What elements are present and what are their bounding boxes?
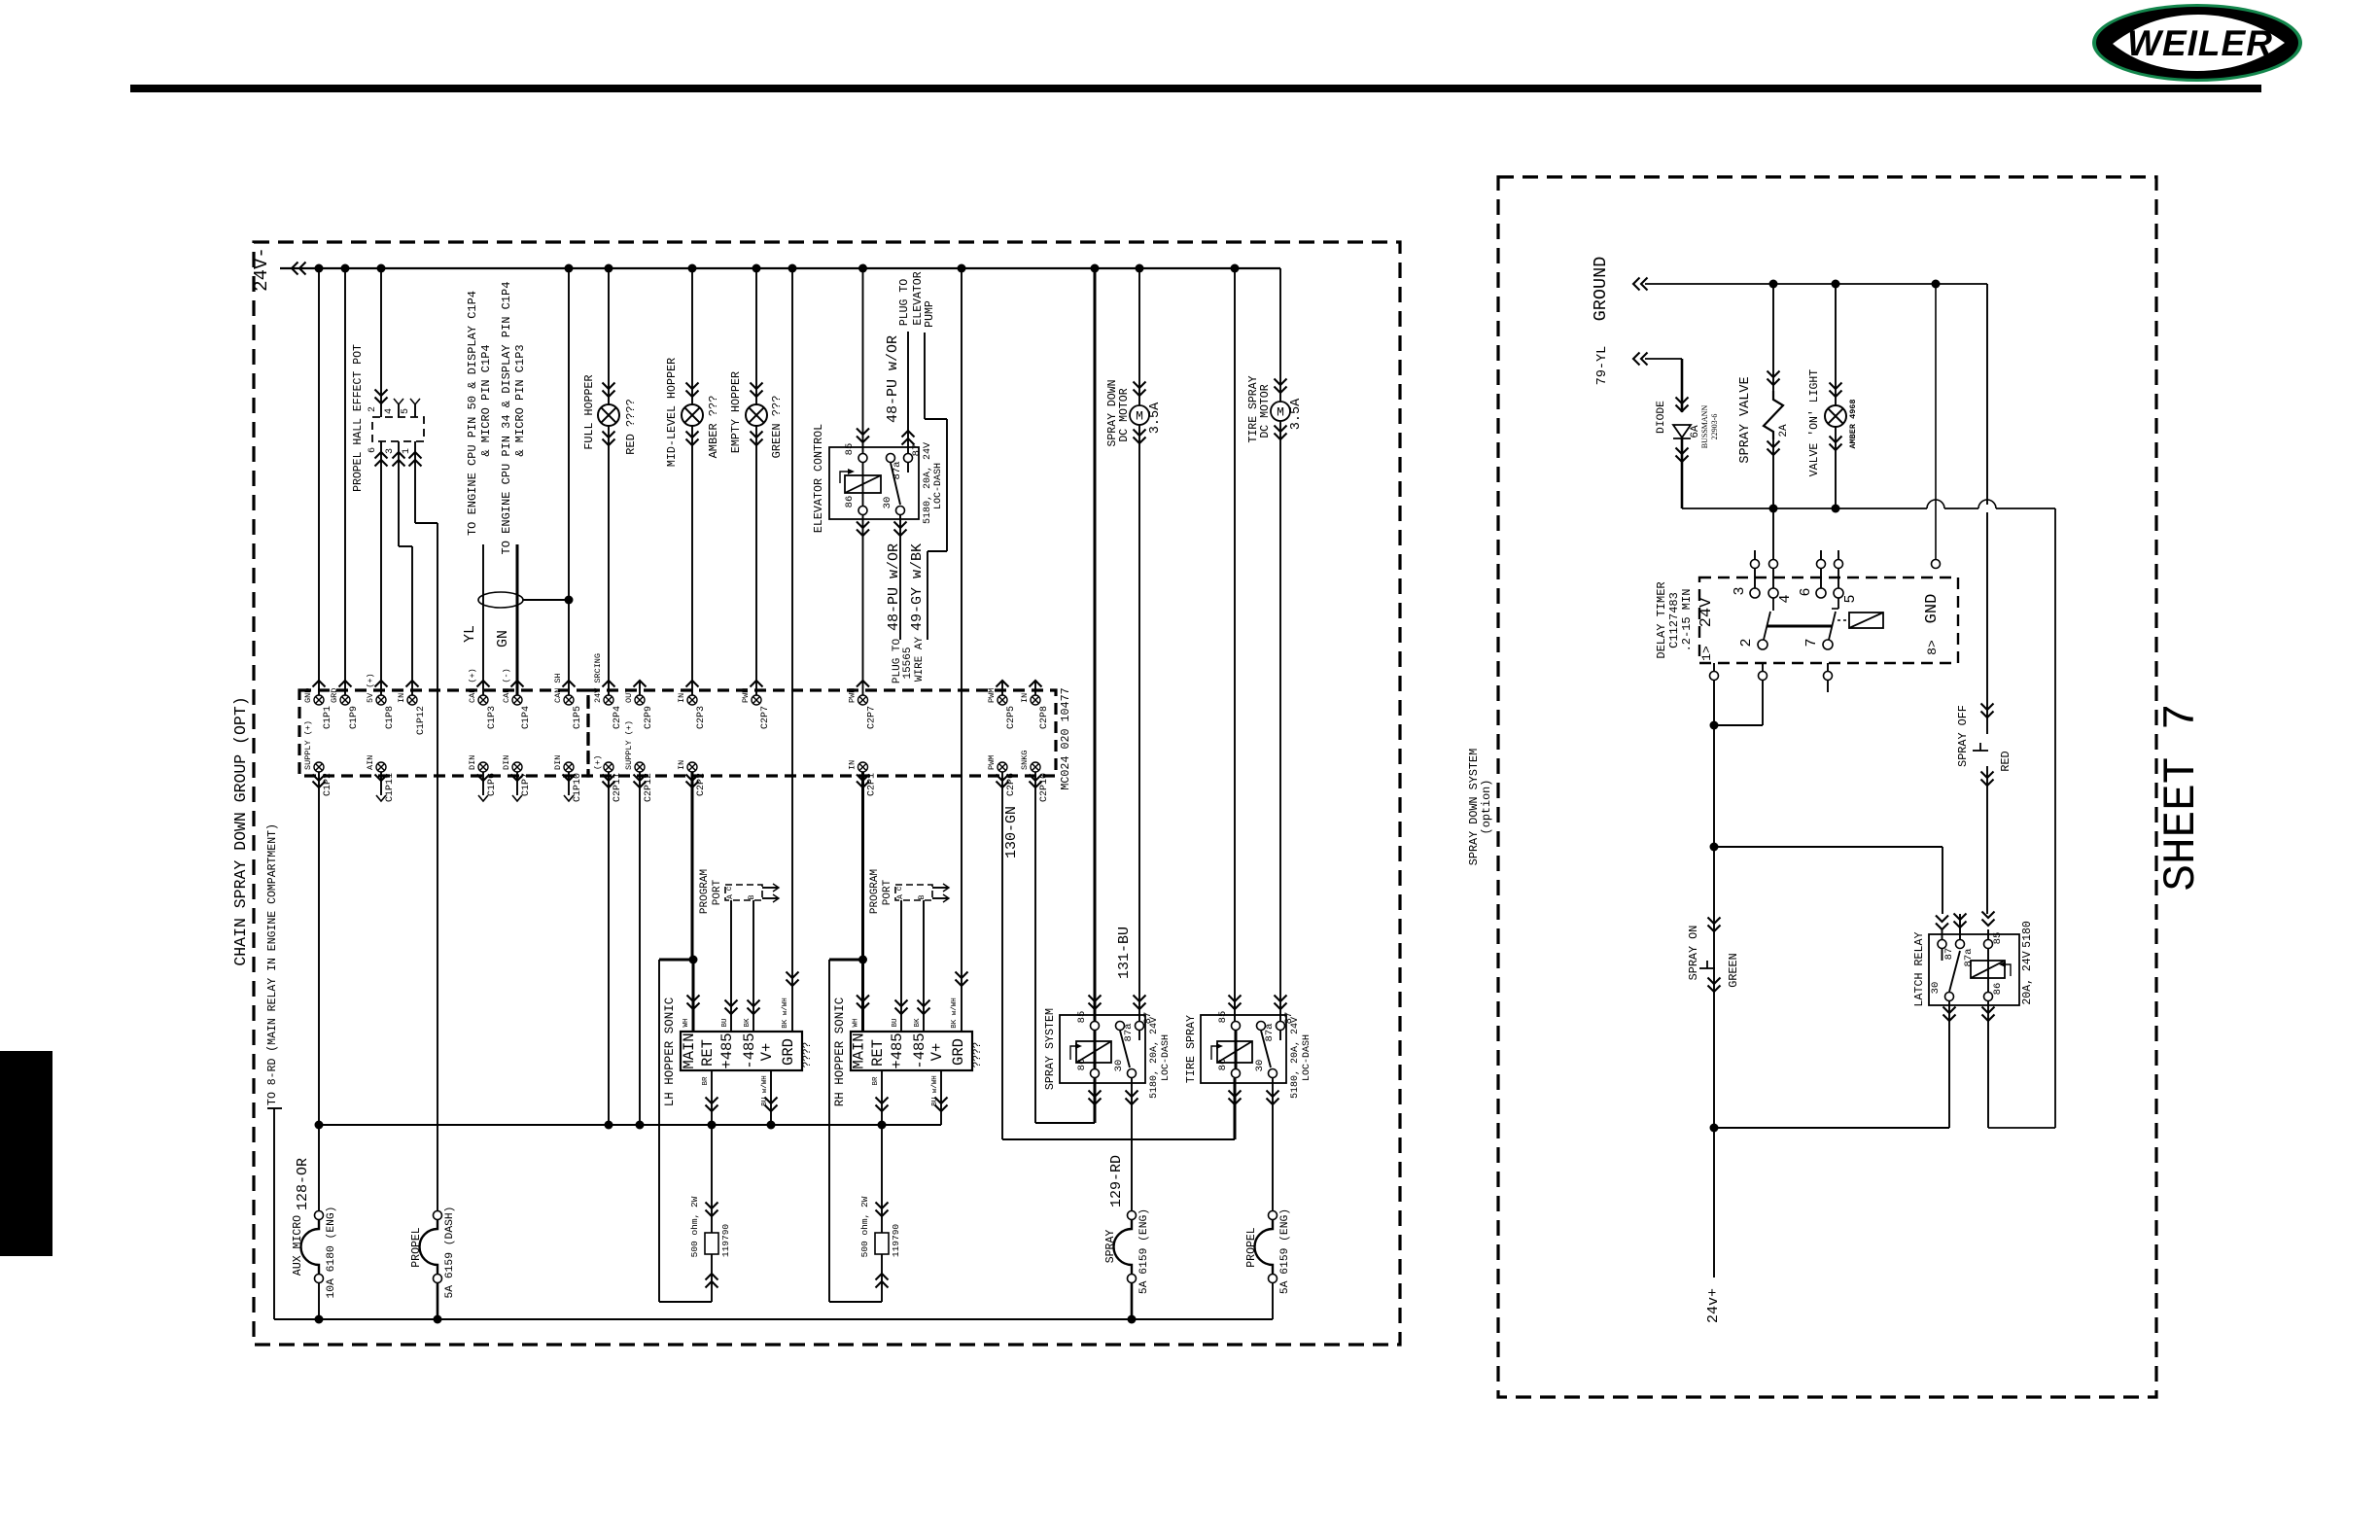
- wire C2P10 link to SPRAY SYSTEM 86: [1035, 1078, 1102, 1123]
- connector pin C2P10 (SNKG) bottom row: [1020, 751, 1050, 802]
- svg-text:AIN: AIN: [366, 755, 375, 770]
- svg-text:GROUND: GROUND: [1591, 257, 1611, 322]
- svg-text:87a: 87a: [1264, 1024, 1276, 1042]
- label GN: [495, 630, 511, 647]
- LH program port arrows: [762, 884, 779, 902]
- svg-text:C2P2: C2P2: [696, 773, 707, 796]
- 24V- bus wire: [280, 262, 1280, 275]
- svg-text:24V: 24V: [1697, 597, 1716, 627]
- label 22903-6: [1710, 414, 1719, 440]
- label YL: [462, 625, 478, 643]
- connector pin C2P11 ((+)) bottom row: [593, 755, 623, 802]
- label AMBER ???: [707, 396, 720, 459]
- svg-text:C1P1: C1P1: [323, 706, 333, 729]
- svg-text:C1P9: C1P9: [349, 706, 360, 729]
- svg-text:2A: 2A: [1778, 424, 1790, 437]
- wire bus to C1P9: [344, 268, 346, 695]
- label 119790 (LH): [720, 1224, 731, 1258]
- label 1> 24V: [1697, 597, 1716, 661]
- wire C2P10 SNKG down to spray relay 86 link: [1034, 772, 1036, 1123]
- connector pin C1P4 (CAN (-)) top row: [502, 668, 532, 729]
- label 15565: [902, 647, 914, 679]
- svg-text:ELEVATOR CONTROL: ELEVATOR CONTROL: [812, 424, 825, 533]
- label C1127483: [1667, 592, 1681, 648]
- motor SPRAY DOWN DC MOTOR: [1130, 405, 1149, 425]
- wire bus to C1P1: [318, 268, 320, 695]
- junction on 24V- bus x=1172: [1136, 264, 1144, 273]
- svg-text:FULL HOPPER: FULL HOPPER: [582, 374, 596, 449]
- wire ground to delay timer pin 8: [1932, 284, 1941, 569]
- label & MICRO PIN C1P4: [479, 344, 493, 456]
- svg-text:CAN SH: CAN SH: [553, 673, 563, 703]
- svg-text:5180: 5180: [2021, 921, 2034, 948]
- svg-text:5180, 20A, 24V: 5180, 20A, 24V: [1290, 1017, 1301, 1099]
- label 131-BU: [1116, 927, 1133, 979]
- SPRAY SYSTEM pin 87: [1136, 1012, 1155, 1031]
- svg-text:GRD: GRD: [950, 1038, 967, 1066]
- svg-text:6: 6: [367, 447, 378, 453]
- svg-text:LOC-DASH: LOC-DASH: [1302, 1034, 1312, 1081]
- DELAY TIMER dashed box: [1699, 577, 1958, 663]
- svg-text:BUSSMANN: BUSSMANN: [1700, 405, 1709, 449]
- svg-text:C2P12: C2P12: [644, 773, 654, 802]
- svg-text:LH HOPPER SONIC: LH HOPPER SONIC: [663, 997, 677, 1107]
- connector pin C1P3 (CAN (+)) top row: [468, 668, 498, 729]
- wire C2P12 to supply net: [639, 772, 641, 1125]
- elevator relay pin 85: [844, 443, 867, 463]
- junction on 24V- bus x=989: [958, 264, 966, 273]
- svg-text:PROGRAM: PROGRAM: [869, 869, 881, 914]
- svg-text:PWM: PWM: [848, 688, 857, 703]
- svg-text:87: 87: [1943, 948, 1955, 961]
- svg-text:79-YL: 79-YL: [1595, 346, 1610, 386]
- svg-text:RET: RET: [869, 1039, 887, 1067]
- wire spray valve branch: [1767, 284, 1780, 513]
- svg-text:PWM: PWM: [741, 688, 751, 703]
- svg-text:3: 3: [385, 448, 396, 454]
- wire C2P6 to net B (130-GN area): [1001, 772, 1003, 1139]
- connector pin C1P7 (DIN) bottom row: [502, 755, 532, 801]
- lamp FULL HOPPER: [598, 383, 619, 446]
- svg-text:MC024 020 10477: MC024 020 10477: [1059, 687, 1072, 789]
- svg-text:24V-: 24V-: [251, 247, 272, 292]
- label (option): [1480, 780, 1493, 835]
- GROUND net wire: [1633, 278, 1987, 291]
- switch SPRAY ON pushbutton: [1699, 918, 1721, 993]
- svg-text:4: 4: [384, 408, 395, 414]
- label PORT (RH): [882, 879, 893, 905]
- svg-text:119790: 119790: [891, 1224, 901, 1258]
- label EMPTY HOPPER: [729, 371, 743, 453]
- elevator relay pin 87a: [887, 454, 904, 480]
- LH GRD wire chevrons: [0, 0, 1, 1]
- svg-text:GND: GND: [1923, 594, 1942, 624]
- wire 49-GY w/BK wrap around relay: [925, 332, 947, 640]
- svg-text:SPRAY DOWN SYSTEM: SPRAY DOWN SYSTEM: [1467, 749, 1481, 865]
- svg-text:C1P5: C1P5: [573, 706, 583, 729]
- junction on 24V- bus x=712: [688, 264, 697, 273]
- svg-text:-485: -485: [741, 1032, 758, 1068]
- svg-text:C2P4: C2P4: [612, 706, 623, 729]
- label SHEET 7: [2156, 703, 2207, 891]
- wire valve on light branch: [1830, 284, 1842, 513]
- LH wire RET to supply net: [706, 1070, 718, 1130]
- delay timer pin 7: [1803, 638, 1833, 649]
- svg-text:SUPPLY (+): SUPPLY (+): [624, 720, 634, 770]
- svg-text:PROGRAM: PROGRAM: [699, 869, 711, 914]
- svg-text:128-OR: 128-OR: [295, 1158, 311, 1210]
- svg-text:C2P9: C2P9: [644, 706, 654, 729]
- connector pin C2P7 (PWM) top row: [741, 681, 771, 729]
- junction on 24V- bus x=815: [788, 264, 797, 273]
- label SPRAY ON: [1687, 926, 1700, 981]
- svg-text:LOC-DASH: LOC-DASH: [1161, 1034, 1172, 1081]
- svg-text:DC MOTOR: DC MOTOR: [1118, 388, 1131, 441]
- svg-text:3: 3: [1732, 586, 1748, 595]
- svg-text:WEILER: WEILER: [2127, 23, 2273, 63]
- label 6A: [1690, 425, 1701, 438]
- wire C2P2 to LH sonic MAIN junction (thick): [691, 772, 694, 960]
- label TIRE SPRAY: [1184, 1015, 1198, 1083]
- svg-text:EMPTY HOPPER: EMPTY HOPPER: [729, 371, 743, 453]
- svg-text:B: B: [918, 894, 927, 899]
- svg-text:C1P4: C1P4: [521, 706, 532, 729]
- TIRE SPRAY coil: [1211, 1031, 1252, 1068]
- svg-text:C1P10: C1P10: [573, 773, 583, 802]
- label LOC-DASH (elevator): [933, 463, 944, 509]
- svg-text:87a: 87a: [1123, 1024, 1135, 1042]
- wire bus to TIRE SPRAY relay 85: [1229, 268, 1242, 1021]
- label PROPEL HALL EFFECT POT: [352, 344, 365, 492]
- svg-text:20A, 24V: 20A, 24V: [2021, 951, 2034, 1004]
- svg-text:+485: +485: [889, 1032, 906, 1068]
- label SPRAY DOWN: [1106, 379, 1119, 446]
- wire AUX MICRO fuse to bottom bus: [318, 1283, 320, 1319]
- svg-text:V+: V+: [928, 1043, 946, 1062]
- svg-text:3.5A: 3.5A: [1148, 402, 1163, 434]
- svg-text:PORT: PORT: [712, 879, 723, 905]
- label 5180, 20A, 24V (SPRAY SYSTEM): [1149, 1017, 1160, 1099]
- svg-text:IN: IN: [848, 760, 857, 770]
- bottom bus wire: [274, 1315, 1273, 1324]
- svg-text:CHAIN SPRAY DOWN GROUP (OPT): CHAIN SPRAY DOWN GROUP (OPT): [231, 696, 250, 965]
- connector pin C1P9 (GRD) top row: [330, 681, 360, 729]
- junction on 24V- bus x=355: [341, 264, 350, 273]
- pot pin 4 stub: [384, 399, 403, 417]
- label 129-RD: [1108, 1155, 1125, 1207]
- SPRAY SYSTEM pin 86: [1076, 1059, 1100, 1078]
- elevator relay coil: [840, 463, 881, 506]
- svg-text:GN: GN: [495, 630, 511, 647]
- LH sonic terminal labels MAIN RET +485 -485 V+ GRD: [681, 1032, 797, 1068]
- RH wire V+ to supply net: [935, 1070, 948, 1125]
- svg-text:MID-LEVEL HOPPER: MID-LEVEL HOPPER: [665, 358, 679, 467]
- svg-text:B: B: [748, 894, 756, 899]
- label RED ????: [624, 399, 638, 455]
- svg-text:130-GN: 130-GN: [1003, 806, 1020, 858]
- svg-text:87a: 87a: [1963, 949, 1975, 967]
- svg-text:7: 7: [1803, 638, 1820, 647]
- wire TIRE SPRAY 30 to PROPEL ENG fuse: [1267, 1078, 1279, 1215]
- svg-text:GRD: GRD: [780, 1038, 797, 1066]
- svg-text:TO 8-RD (MAIN RELAY IN ENGINE: TO 8-RD (MAIN RELAY IN ENGINE COMPARTMEN…: [266, 823, 279, 1105]
- svg-text:C2P6: C2P6: [1006, 773, 1017, 796]
- svg-text:RED ????: RED ????: [624, 399, 638, 455]
- svg-text:SUPPLY (+): SUPPLY (+): [303, 720, 313, 770]
- latch pin 87a stub: [1954, 914, 1976, 967]
- elevator relay switch blade: [891, 463, 908, 505]
- label RED (spray off): [1999, 751, 2012, 771]
- lamp MID-LEVEL HOPPER: [682, 383, 703, 446]
- label DC MOTOR (spray): [1118, 388, 1131, 441]
- svg-text:2: 2: [1738, 638, 1755, 647]
- label PORT (LH): [712, 879, 723, 905]
- svg-text:IN: IN: [397, 693, 406, 703]
- label TIRE SPRAY: [1247, 375, 1260, 442]
- svg-text:C1P7: C1P7: [521, 773, 532, 796]
- RH program port arrows: [932, 884, 949, 902]
- svg-text:5: 5: [401, 408, 411, 414]
- TIRE SPRAY switch blade: [1261, 1031, 1280, 1067]
- motor TIRE SPRAY DC MOTOR: [1271, 402, 1290, 421]
- label MC024 020 10477: [1059, 687, 1072, 789]
- label GROUND: [1591, 257, 1611, 322]
- svg-text:85: 85: [1076, 1011, 1088, 1024]
- label ELEVATOR CONTROL: [812, 424, 825, 533]
- label 130-GN: [1003, 806, 1020, 858]
- connector pin C2P2 (IN) bottom row: [677, 760, 707, 796]
- svg-text:IN: IN: [677, 693, 686, 703]
- TIRE SPRAY pin 87a: [1257, 1022, 1277, 1042]
- junction on 24V- bus x=328: [315, 264, 324, 273]
- svg-text:PWM: PWM: [987, 755, 997, 770]
- svg-text:SHEET 7: SHEET 7: [2156, 703, 2207, 891]
- LH wire color tags WH BU BK: [682, 1018, 769, 1106]
- wire CAN(+) YL from C1P3 up: [482, 544, 484, 695]
- svg-text:MAIN: MAIN: [851, 1032, 868, 1068]
- lamp VALVE 'ON' LIGHT: [1825, 405, 1846, 427]
- diode: [1673, 398, 1691, 509]
- label LH HOPPER SONIC: [663, 997, 677, 1107]
- svg-text:BR: BR: [872, 1076, 880, 1086]
- label FULL HOPPER: [582, 374, 596, 449]
- TIRE SPRAY pin 86: [1217, 1059, 1241, 1078]
- SPRAY SYSTEM pin 87a: [1116, 1022, 1136, 1042]
- svg-text:C2P8: C2P8: [1039, 706, 1050, 729]
- svg-text:BR: BR: [702, 1076, 710, 1086]
- svg-text:A: A: [726, 894, 735, 899]
- label ELEVATOR: [912, 271, 925, 325]
- wire 24v+ node to latch 30: [1714, 1001, 1956, 1128]
- svg-text:6: 6: [1798, 587, 1814, 596]
- svg-text:& MICRO PIN C1P3: & MICRO PIN C1P3: [513, 344, 527, 456]
- wire elevator 30 down (48-PU w/OR): [894, 515, 907, 640]
- svg-text:C1127483: C1127483: [1667, 592, 1681, 648]
- wire CAN(-) GN from C1P4 up: [516, 544, 519, 695]
- svg-text:SNKG: SNKG: [1020, 751, 1030, 770]
- label LATCH RELAY: [1912, 931, 1926, 1006]
- svg-text:GREEN ???: GREEN ???: [770, 396, 784, 459]
- svg-text:WH: WH: [682, 1018, 690, 1027]
- junction on 24V- bus x=778: [752, 264, 761, 273]
- connector pin C2P5 (PWM) top row: [987, 681, 1017, 729]
- svg-text:C1P11: C1P11: [385, 773, 396, 802]
- svg-text:BU: BU: [721, 1018, 729, 1027]
- wire 79-YL lower run with hops to latch 86: [1682, 500, 2055, 1128]
- relay ELEVATOR CONTROL outline: [829, 447, 919, 519]
- label ???? (LH): [802, 1042, 814, 1067]
- label SPRAY VALVE: [1738, 376, 1753, 463]
- delay timer pin 2 wire: [1714, 663, 1767, 725]
- delay timer pin 1 wire to 24v+ rail: [1710, 663, 1719, 1277]
- fuse PROPEL 5A 6159 (ENG): [1245, 1208, 1291, 1294]
- svg-text:GND: GND: [303, 688, 313, 703]
- svg-text:10A 6180 (ENG): 10A 6180 (ENG): [326, 1207, 337, 1299]
- svg-text:15565: 15565: [902, 647, 914, 679]
- svg-text:SPRAY VALVE: SPRAY VALVE: [1738, 376, 1753, 463]
- svg-text:MAIN: MAIN: [681, 1032, 698, 1068]
- svg-text:5A 6159 (ENG): 5A 6159 (ENG): [1138, 1208, 1150, 1294]
- svg-text:M: M: [1136, 409, 1143, 424]
- svg-text:DELAY TIMER: DELAY TIMER: [1655, 581, 1668, 658]
- label 20A, 24V (latch): [2021, 951, 2034, 1004]
- svg-text:C1P12: C1P12: [416, 706, 427, 735]
- svg-text:8>: 8>: [1925, 640, 1940, 655]
- supply net corner at RH V+: [0, 0, 1, 1]
- connector pin C1P2 (SUPPLY (+)) bottom row: [303, 720, 333, 796]
- svg-text:CAN (+): CAN (+): [468, 668, 477, 703]
- wire 79-YL to diode: [1633, 353, 1682, 413]
- svg-text:.2-15 MIN: .2-15 MIN: [1680, 589, 1694, 652]
- wire latch 86 down to 79-YL return: [1982, 1001, 1995, 1128]
- label GREEN ???: [770, 396, 784, 459]
- delay timer pin 2: [1738, 638, 1767, 649]
- svg-text:C1P8: C1P8: [385, 706, 396, 729]
- delay timer switch blades and link: [1764, 598, 1838, 640]
- latch pin 86: [1984, 983, 2005, 1001]
- wire bus to C1P5 CAN SH: [568, 268, 570, 695]
- WEILER logo: [2092, 4, 2302, 82]
- TIRE SPRAY pin 85: [1217, 1011, 1241, 1031]
- connector pin C2P6 (PWM) bottom row: [987, 755, 1017, 796]
- wire PROPEL ENG fuse to bottom bus: [1272, 1283, 1274, 1319]
- label GREEN (spray on): [1727, 953, 1740, 987]
- svg-text:C1P6: C1P6: [487, 773, 498, 796]
- label & MICRO PIN C1P3: [513, 344, 527, 456]
- delay timer coil: [1837, 612, 1883, 628]
- pot pin 3 label: [385, 448, 396, 454]
- svg-text:129-RD: 129-RD: [1108, 1155, 1125, 1207]
- label MID-LEVEL HOPPER: [665, 358, 679, 467]
- svg-text:48-PU w/OR: 48-PU w/OR: [885, 335, 901, 423]
- svg-text:????: ????: [802, 1042, 814, 1067]
- svg-text:AUX MICRO: AUX MICRO: [292, 1215, 304, 1276]
- junction on 24V- bus x=392: [377, 264, 386, 273]
- svg-text:WIRE AY: WIRE AY: [914, 637, 926, 682]
- valve SPRAY VALVE symbol: [1764, 391, 1783, 439]
- svg-text:c: c: [895, 886, 904, 891]
- delay timer wire pin 4 from 79-YL net: [1769, 512, 1778, 588]
- svg-text:48-PU w/OR: 48-PU w/OR: [886, 543, 902, 631]
- wire pot pin 6 to C1P8: [375, 441, 388, 695]
- connector pin C1P6 (DIN) bottom row: [468, 755, 498, 801]
- relay SPRAY SYSTEM outline: [1060, 1015, 1145, 1083]
- junction on 24V- bus x=626: [605, 264, 613, 273]
- pot pin 5 stub: [401, 399, 420, 417]
- SPRAY SYSTEM coil: [1070, 1031, 1111, 1068]
- svg-text:PROPEL: PROPEL: [410, 1227, 423, 1268]
- LH HOPPER SONIC junction and MAIN wire: [659, 956, 700, 1303]
- label 119790 (RH): [891, 1224, 901, 1258]
- label WIRE AY: [914, 637, 926, 682]
- wire ground corner to SPRAY OFF switch to latch 85: [1981, 284, 1995, 939]
- wire bus to LH sonic GRD (BK w/WH): [782, 268, 799, 1032]
- svg-text:SPRAY SYSTEM: SPRAY SYSTEM: [1043, 1008, 1057, 1090]
- relay LATCH RELAY outline: [1929, 934, 2019, 1005]
- pot connector dashed box: [372, 417, 424, 441]
- label 128-OR: [295, 1158, 311, 1210]
- RH wire program port B to -485: [918, 900, 930, 1032]
- wire C2P11 to supply net: [608, 772, 610, 1125]
- label 48-PU w/OR (30 wire): [886, 543, 902, 631]
- delay timer pin 7 stub below: [1824, 663, 1833, 692]
- svg-text:BK w/WH: BK w/WH: [951, 997, 959, 1029]
- connector pin C2P4 (24V SRCING) top row: [593, 653, 623, 729]
- label 24v+: [1705, 1288, 1722, 1323]
- svg-text:85: 85: [844, 443, 856, 456]
- wire C1P2 to AUX MICRO fuse (128-OR): [318, 772, 320, 1215]
- CAN shield tap wire to C1P5: [523, 596, 574, 605]
- svg-text:5V (+): 5V (+): [366, 673, 375, 703]
- svg-text:4: 4: [1777, 594, 1794, 603]
- label 48-PU w/OR (87 wire): [885, 335, 901, 423]
- svg-text:YL: YL: [462, 625, 478, 643]
- fuse PROPEL 5A 6159 (DASH): [410, 1207, 456, 1319]
- svg-text:30: 30: [1113, 1060, 1125, 1072]
- CHAIN SPRAY DOWN GROUP (OPT) dashed enclosure: [254, 242, 1400, 1345]
- black sidebar tab on left edge: [0, 1051, 52, 1256]
- RH HOPPER SONIC box: [851, 1032, 972, 1070]
- svg-text:C2P5: C2P5: [1006, 706, 1017, 729]
- wire pot pin 1 jog to PROPEL DASH fuse feed: [409, 441, 438, 1215]
- TIRE SPRAY pin 30: [1254, 1060, 1277, 1078]
- svg-text:PUMP: PUMP: [924, 300, 936, 328]
- svg-text:1: 1: [402, 448, 412, 454]
- svg-text:LOC-DASH: LOC-DASH: [933, 463, 944, 509]
- label ???? (RH): [972, 1042, 984, 1067]
- svg-text:87: 87: [911, 444, 923, 457]
- label 500 ohm, 2W (RH): [859, 1196, 870, 1257]
- svg-text:49-GY w/BK: 49-GY w/BK: [909, 543, 926, 631]
- latch relay coil: [1971, 949, 2011, 992]
- svg-text:5180, 20A, 24V: 5180, 20A, 24V: [923, 442, 933, 524]
- svg-text:IN: IN: [1020, 693, 1030, 703]
- svg-text:PWM: PWM: [987, 688, 997, 703]
- relay TIRE SPRAY outline: [1201, 1015, 1286, 1083]
- svg-text:RED: RED: [1999, 751, 2012, 771]
- svg-text:BU: BU: [892, 1018, 899, 1027]
- svg-text:2: 2: [367, 406, 378, 412]
- latch switch blade: [1942, 949, 1961, 992]
- label DIODE: [1656, 401, 1667, 434]
- label 2A: [1778, 424, 1790, 437]
- svg-text:V+: V+: [758, 1043, 776, 1062]
- wire bus to pot pin 2: [375, 268, 388, 417]
- label 3.5A (spray): [1148, 402, 1163, 434]
- svg-text:(+): (+): [593, 755, 603, 770]
- latch pin 85: [1984, 932, 2005, 949]
- svg-text:5A 6159 (DASH): 5A 6159 (DASH): [444, 1207, 456, 1299]
